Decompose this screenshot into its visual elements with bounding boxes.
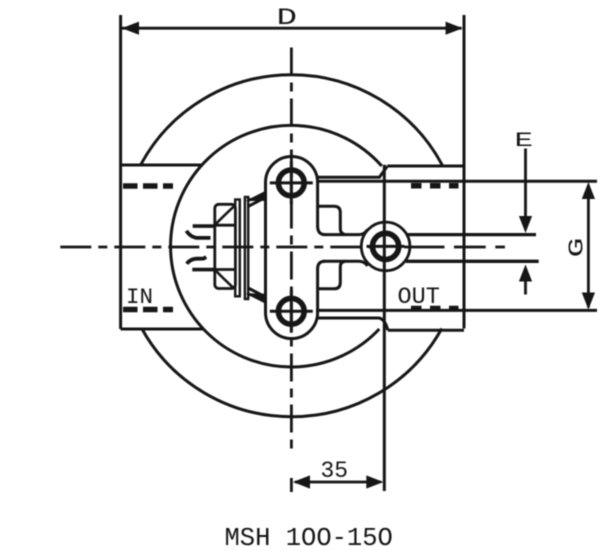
nut facet line lower: [215, 268, 236, 271]
cone bottom slant: [248, 288, 266, 297]
inner flange circle (hidden behind right ports): [171, 125, 382, 367]
svg-text:D: D: [277, 5, 298, 31]
nut bottom facet arc: [216, 271, 234, 288]
boss bolt horizontal crosshair: [367, 245, 405, 248]
OUT block lower thread dashes: [411, 306, 459, 312]
35 dimension line: [295, 481, 381, 484]
cone top edge: [248, 199, 266, 200]
svg-text:OUT: OUT: [398, 284, 440, 311]
outer flange circle bottom arc: [142, 329, 442, 417]
bolt bracket stadium body (right side open at arm): [266, 156, 318, 338]
G top arrowhead: [582, 182, 595, 199]
IN block top edge: [121, 164, 202, 167]
OUT block inner vertical line: [383, 165, 386, 491]
G bottom arrowhead: [582, 293, 595, 310]
E upper arrowhead: [519, 216, 532, 233]
vertical centerline: [290, 48, 293, 453]
svg-text:E: E: [515, 130, 534, 153]
svg-text:35: 35: [321, 458, 349, 484]
whisker line D: [192, 268, 214, 272]
port top line (E reference): [406, 233, 536, 236]
hex nut outline: [215, 204, 236, 288]
arm bottom line into boss: [323, 261, 368, 266]
OUT block upper thread dashes: [411, 183, 459, 189]
cone top slant: [248, 197, 266, 206]
OUT block top edge: [387, 165, 464, 168]
cone bottom edge: [248, 295, 266, 296]
boss bolt heavy ring: [373, 233, 399, 259]
35 left arrowhead: [293, 475, 310, 488]
washer strip 1: [235, 200, 240, 297]
whisker hook B: [186, 231, 210, 238]
E upper dimension line: [524, 149, 527, 230]
whisker line A: [193, 224, 214, 228]
nut top facet arc: [216, 207, 234, 224]
IN block left edge / D extension line: [119, 15, 122, 329]
IN block lower thread dashes: [123, 307, 173, 313]
35 right arrowhead: [366, 475, 383, 488]
bottom bolt heavy ring: [278, 298, 304, 324]
svg-text:MSH 1OO-15O: MSH 1OO-15O: [225, 524, 393, 551]
bottom bolt crosshair: [270, 290, 313, 333]
svg-text:IN: IN: [126, 284, 153, 310]
lower ear bottom edge with corner curve: [318, 318, 388, 330]
E lower arrowhead: [519, 265, 532, 282]
E lower tail: [524, 281, 527, 295]
D left arrowhead: [122, 22, 139, 35]
upper right step outline: [318, 206, 346, 234]
nut facet line upper: [215, 224, 236, 227]
boss outer ring: [361, 222, 410, 271]
IN block upper thread dashes: [123, 183, 173, 189]
E upper extension line (G top reference): [316, 180, 597, 183]
upper left wedge ear: [246, 191, 266, 201]
port bottom line (E reference): [406, 260, 539, 263]
top bolt heavy ring: [278, 170, 304, 196]
outer flange circle top arc: [141, 75, 443, 165]
arm top line into boss: [323, 230, 368, 235]
horizontal centerline: [60, 246, 370, 249]
OUT block bottom edge: [388, 329, 464, 332]
whisker hook C: [187, 257, 206, 264]
washer strip 2: [245, 197, 248, 299]
G bottom reference extension line: [316, 309, 597, 312]
horizontal centerline dashes right of boss: [405, 246, 505, 249]
D dimension line: [122, 27, 462, 30]
upper ear top edge with chamfer: [318, 166, 388, 177]
top bolt crosshair: [270, 161, 313, 204]
OUT block right edge / D extension line: [463, 15, 466, 329]
stadium edge fillet into arm top: [318, 226, 325, 235]
lower right step outline: [318, 261, 346, 289]
D right arrowhead: [446, 22, 463, 35]
vertical centerline bottom dash: [290, 478, 293, 492]
stadium edge fillet into arm bottom: [318, 261, 325, 269]
lower left wedge ear: [246, 294, 266, 304]
G dimension line: [587, 185, 590, 308]
svg-text:G: G: [566, 238, 590, 258]
IN block bottom edge: [121, 328, 204, 331]
